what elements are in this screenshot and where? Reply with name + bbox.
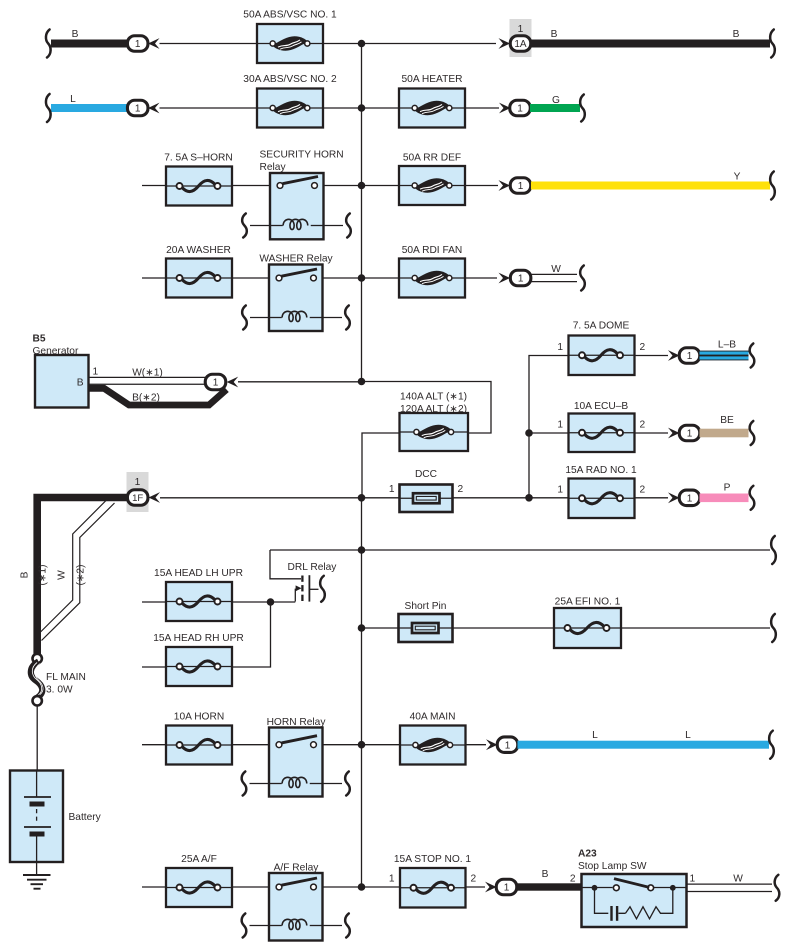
wire fuse to relay row3 (231, 185, 270, 187)
wire efi to break (621, 627, 770, 629)
wire-break W rdi (580, 266, 585, 291)
relay WASHER (259, 254, 333, 332)
svg-text:7. 5A DOME: 7. 5A DOME (573, 321, 630, 332)
fuse 50A ABS/VSC NO. 1 (243, 10, 337, 64)
svg-text:Relay: Relay (260, 162, 287, 173)
svg-text:7. 5A S–HORN: 7. 5A S–HORN (164, 153, 233, 164)
svg-text:W(∗1): W(∗1) (132, 368, 163, 379)
svg-text:1: 1 (505, 740, 511, 751)
pin 2 dome (640, 342, 646, 353)
wire L-B colored (700, 340, 749, 361)
svg-text:3. 0W: 3. 0W (46, 685, 73, 696)
junction dcc bus (358, 494, 366, 502)
svg-text:1: 1 (213, 378, 219, 389)
fuse 25A EFI NO. 1 (554, 597, 621, 649)
connector 1 row2 left (127, 100, 159, 116)
fuse 15A HEAD RH UPR (153, 633, 244, 686)
svg-text:B: B (551, 29, 558, 40)
junction efi bus (358, 624, 366, 632)
wire af stub (142, 886, 166, 888)
wire heater fuse to connector (465, 107, 499, 109)
wire-break row550 (771, 536, 776, 564)
svg-text:1: 1 (687, 429, 693, 440)
svg-text:HORN Relay: HORN Relay (267, 717, 327, 728)
fusible link FL MAIN 3.0W (31, 654, 86, 706)
svg-text:L: L (70, 94, 76, 105)
svg-text:2: 2 (471, 874, 477, 885)
junction row3 bus (358, 182, 366, 190)
wire horn relay to bus (323, 744, 362, 746)
wire dome to connector (635, 355, 669, 357)
svg-text:B: B (20, 571, 31, 578)
wire row2 bus to heater fuse (362, 107, 400, 109)
wire row4 stub left (142, 277, 166, 279)
wire G colored (530, 95, 580, 112)
wire-break Y (770, 172, 775, 200)
svg-text:B: B (77, 378, 84, 389)
svg-text:15A HEAD RH UPR: 15A HEAD RH UPR (153, 633, 244, 644)
wire L colored main (518, 730, 770, 749)
svg-text:B: B (542, 869, 549, 880)
junction row1 bus (358, 40, 366, 48)
svg-text:L: L (685, 730, 691, 741)
junction horn bus (358, 741, 366, 749)
wire rad to connector (635, 497, 669, 499)
transistor DRL Relay MOSFET (288, 562, 338, 602)
connector 1F (127, 490, 160, 506)
wire-break BE (750, 421, 755, 445)
wire shortpin to efi fuse (453, 627, 555, 629)
wire-break P (750, 486, 755, 510)
svg-text:1: 1 (518, 24, 524, 35)
fuse 20A WASHER (166, 245, 232, 298)
pin 1 stop (389, 874, 395, 885)
battery (10, 771, 102, 863)
short pin DCC (400, 469, 453, 512)
fuse 40A MAIN (400, 712, 466, 765)
svg-text:B: B (72, 29, 79, 40)
wire-break left row2 (46, 94, 51, 122)
wire af relay to bus (323, 886, 362, 888)
wire B(*2) generator (89, 388, 227, 405)
svg-text:SECURITY HORN: SECURITY HORN (260, 150, 344, 161)
wire row2 fuse to bus (323, 107, 362, 109)
svg-text:50A RDI FAN: 50A RDI FAN (402, 245, 463, 256)
svg-text:2: 2 (458, 484, 464, 495)
connector 1 dome (668, 348, 700, 364)
svg-text:1: 1 (518, 274, 524, 285)
wire bus to shortpin (362, 627, 399, 629)
wire BE colored (700, 415, 749, 437)
svg-text:1: 1 (557, 420, 563, 431)
fuse 15A RAD NO. 1 (565, 465, 637, 518)
svg-text:1: 1 (557, 342, 563, 353)
wire-break L-B (750, 344, 755, 368)
wire W(*1) generator (89, 368, 207, 385)
svg-text:2: 2 (640, 420, 646, 431)
wire bus to ALT fuse (362, 382, 492, 434)
svg-text:50A RR DEF: 50A RR DEF (403, 153, 461, 164)
short pin Short Pin (399, 601, 453, 642)
wire-break relay coil left row4 (242, 306, 269, 330)
wire-break G (580, 95, 585, 122)
svg-text:1: 1 (504, 883, 510, 894)
svg-text:WASHER Relay: WASHER Relay (259, 254, 333, 265)
svg-text:10A HORN: 10A HORN (174, 712, 224, 723)
wire row1 connector to fuse (160, 43, 258, 45)
wire row1 B left colored (51, 29, 130, 48)
wire rhupr to junction (231, 602, 271, 667)
svg-text:50A HEATER: 50A HEATER (402, 74, 463, 85)
svg-text:B5: B5 (33, 334, 46, 345)
wire W colored stop (687, 874, 773, 892)
svg-text:1: 1 (687, 493, 693, 504)
wire-break L main (769, 731, 774, 759)
fuse 25A A/F (166, 854, 232, 907)
generator B5 box (33, 334, 99, 408)
svg-text:20A WASHER: 20A WASHER (166, 245, 231, 256)
svg-text:1F: 1F (132, 493, 143, 504)
svg-text:25A EFI NO. 1: 25A EFI NO. 1 (555, 597, 621, 608)
fuse 7. 5A DOME (569, 321, 635, 376)
wire branch to ecub fuse (529, 432, 569, 434)
svg-text:FL MAIN: FL MAIN (46, 672, 86, 683)
wire link to battery (36, 705, 38, 771)
wire stop fuse to connector (466, 886, 486, 888)
fuse 7. 5A S-HORN (164, 153, 233, 206)
connector 1 stop (485, 879, 517, 895)
wire-break af coil right (323, 914, 350, 938)
svg-text:A23: A23 (578, 849, 597, 860)
fuse 30A ABS/VSC NO. 2 (243, 74, 337, 128)
svg-text:1: 1 (517, 104, 523, 115)
wire row1 B right colored (531, 29, 770, 48)
junction generator bus (358, 378, 366, 386)
svg-text:15A RAD NO. 1: 15A RAD NO. 1 (565, 465, 637, 476)
svg-text:25A A/F: 25A A/F (181, 854, 217, 865)
fuse 140A/120A ALT (400, 392, 469, 452)
junction branch rad (525, 494, 533, 502)
wire bus to dcc (362, 497, 400, 499)
wire-break right row1 (770, 30, 775, 58)
fuse 50A HEATER (399, 74, 465, 128)
wire W colored rdi (531, 264, 577, 282)
svg-text:Generator: Generator (33, 346, 79, 357)
svg-text:140A ALT (∗1): 140A ALT (∗1) (400, 392, 467, 403)
wire rrdef to connector (465, 185, 498, 187)
svg-text:40A MAIN: 40A MAIN (410, 712, 456, 723)
wire ecub to connector (635, 432, 669, 434)
svg-text:2: 2 (570, 874, 576, 885)
wire bus to main fuse (362, 744, 401, 746)
wire lhupr stub (142, 601, 166, 603)
pin 1 a23 (690, 874, 696, 885)
junction row2 bus (358, 104, 366, 112)
wire 1F to bus (160, 497, 362, 499)
wire-break af coil left (242, 914, 269, 938)
junction row550 bus (358, 546, 366, 554)
wire-break relay coil left row3 (242, 214, 270, 238)
svg-text:30A ABS/VSC NO. 2: 30A ABS/VSC NO. 2 (243, 74, 337, 85)
svg-text:1: 1 (687, 351, 693, 362)
arrow into 1A (499, 38, 511, 49)
wire lhupr to mosfet (231, 601, 295, 603)
svg-text:BE: BE (720, 415, 734, 426)
svg-text:(∗1): (∗1) (38, 565, 49, 586)
wire-break left row1 (46, 30, 51, 58)
wire battery to ground (36, 862, 38, 875)
connector 1 heater (499, 100, 530, 116)
pin 2 a23 (570, 874, 576, 885)
svg-text:1: 1 (518, 181, 524, 192)
wire-break efi (771, 614, 776, 642)
wire row2 L left colored (51, 94, 130, 112)
connector 1 row1 left (127, 36, 159, 52)
connector 1 rdifan (499, 270, 531, 286)
wire main bus lower (361, 498, 363, 887)
svg-text:DCC: DCC (415, 469, 437, 480)
svg-text:DRL Relay: DRL Relay (288, 562, 338, 573)
pin 2 rad (640, 485, 646, 496)
svg-text:1: 1 (389, 484, 395, 495)
fuse 50A RR DEF (399, 153, 465, 206)
pin 1 dcc (389, 484, 395, 495)
connector 1 rrdef (499, 178, 531, 194)
wire bus to stop fuse (362, 886, 401, 888)
pin 2 ecub (640, 420, 646, 431)
node tag 1F (127, 472, 149, 512)
svg-text:2: 2 (640, 485, 646, 496)
switch A23 Stop Lamp SW (578, 849, 687, 928)
wire fuse to relay row4 (231, 277, 269, 279)
svg-text:B: B (733, 29, 740, 40)
wire thick battery feed B(*1) (20, 498, 129, 656)
wire drl gate feed (270, 550, 301, 579)
relay SECURITY HORN (260, 150, 344, 240)
svg-text:G: G (552, 95, 560, 106)
wire horn stub (142, 744, 166, 746)
svg-text:1: 1 (389, 874, 395, 885)
wire dcc to rad fuse (453, 497, 569, 499)
svg-text:10A ECU–B: 10A ECU–B (574, 401, 629, 412)
junction branch ecub (525, 429, 533, 437)
wire af fuse to relay (232, 886, 269, 888)
wire row550 (270, 549, 770, 551)
pin 1 ecub (557, 420, 563, 431)
svg-text:W: W (551, 264, 561, 275)
svg-text:Y: Y (734, 172, 741, 183)
svg-text:Stop Lamp SW: Stop Lamp SW (578, 861, 647, 872)
connector 1 rad (668, 490, 700, 506)
fuse 15A STOP NO. 1 (394, 854, 472, 908)
fuse 50A RDI FAN (399, 245, 465, 298)
wire generator to bus (238, 381, 362, 383)
wire row1 fuse to bus (323, 43, 362, 45)
fuse 10A HORN (166, 712, 232, 765)
wire Y colored (531, 172, 770, 190)
wire row4 bus to rdifan fuse (362, 277, 400, 279)
svg-text:15A STOP NO. 1: 15A STOP NO. 1 (394, 854, 472, 865)
wire-break horn coil left (242, 772, 269, 796)
wire-break horn coil right (323, 772, 350, 796)
ground (23, 875, 51, 889)
fuse 10A ECU-B (569, 401, 635, 452)
connector 1A (510, 36, 531, 52)
pin 2 dcc (458, 484, 464, 495)
junction row4 bus (358, 274, 366, 282)
junction af bus (358, 883, 366, 891)
wire horn fuse to relay (232, 744, 269, 746)
wire-break relay coil right row3 (324, 214, 351, 238)
svg-text:50A ABS/VSC NO. 1: 50A ABS/VSC NO. 1 (243, 10, 337, 21)
wire rhupr stub (142, 666, 166, 668)
pin 1 dome (557, 342, 563, 353)
node tag 1A (510, 19, 532, 57)
wire P colored (700, 483, 749, 503)
svg-text:1: 1 (93, 367, 99, 378)
svg-text:2: 2 (640, 342, 646, 353)
svg-text:120A ALT (∗2): 120A ALT (∗2) (400, 404, 467, 415)
svg-text:L: L (592, 730, 598, 741)
wire row3 stub left (142, 185, 166, 187)
svg-text:B(∗2): B(∗2) (132, 393, 160, 404)
wire-break W stop (775, 875, 780, 901)
svg-text:1: 1 (135, 39, 141, 50)
wire main bus upper (361, 44, 363, 382)
svg-text:1: 1 (557, 485, 563, 496)
svg-text:Short Pin: Short Pin (405, 601, 447, 612)
svg-text:L–B: L–B (718, 340, 736, 351)
wire row2 connector to fuse (160, 107, 258, 109)
wire row3 bus to rrdef fuse (362, 185, 400, 187)
svg-text:W: W (733, 874, 743, 885)
svg-text:1A: 1A (514, 39, 527, 50)
wire W(*2) white (41, 501, 115, 641)
svg-text:15A HEAD LH UPR: 15A HEAD LH UPR (154, 568, 243, 579)
wire row1 bus to connector 1A (362, 43, 497, 45)
pin 2 stop (471, 874, 477, 885)
svg-text:W: W (57, 570, 68, 580)
wire B colored stop (517, 869, 582, 891)
svg-text:P: P (724, 483, 731, 494)
wire relay to bus row3 (324, 185, 362, 187)
svg-text:A/F Relay: A/F Relay (274, 863, 320, 874)
relay A/F (269, 863, 323, 941)
wire branch dome corner (529, 356, 569, 498)
wire-break relay coil right row4 (323, 306, 350, 330)
wire relay to bus row4 (323, 277, 362, 279)
wire rdifan to connector (465, 277, 497, 279)
junction lhupr (267, 598, 275, 606)
pin 1 rad (557, 485, 563, 496)
svg-text:1: 1 (135, 477, 141, 488)
wire main fuse to connector (466, 744, 487, 746)
svg-text:1: 1 (135, 104, 141, 115)
fuse 15A HEAD LH UPR (154, 568, 243, 621)
connector 1 main (486, 737, 518, 753)
connector 1 generator (205, 374, 238, 390)
connector 1 ecub (668, 425, 700, 441)
svg-text:(∗2): (∗2) (76, 565, 87, 586)
svg-text:Battery: Battery (69, 812, 102, 823)
svg-text:1: 1 (690, 874, 696, 885)
wire ALT fuse to lower bus (362, 433, 400, 498)
relay HORN (267, 717, 327, 797)
